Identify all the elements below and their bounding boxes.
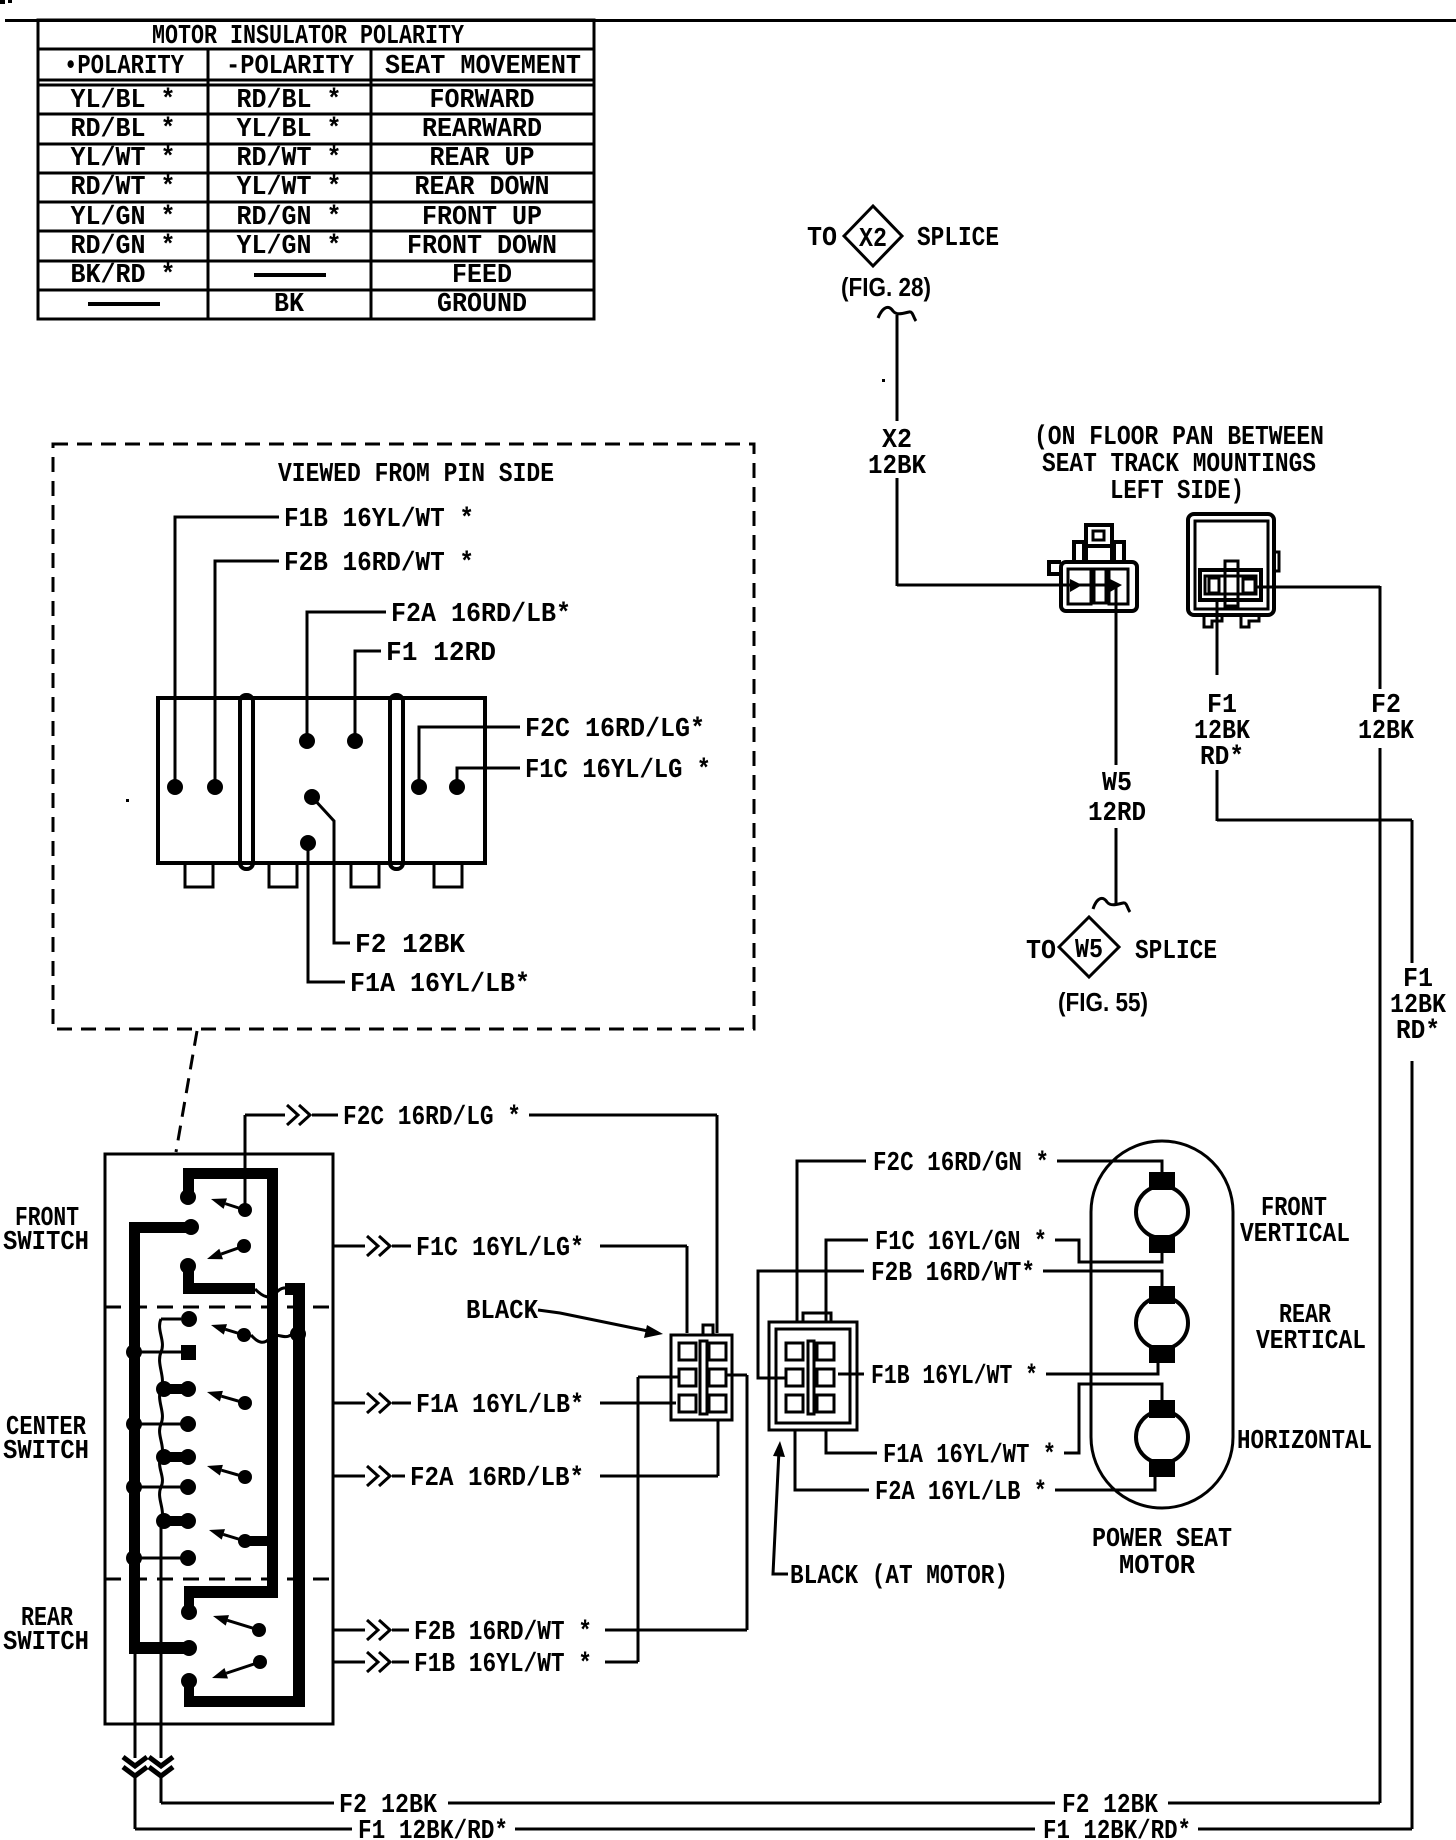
svg-text:F2 12BK: F2 12BK [355,931,466,961]
connector C3 body (pin side view) [158,695,485,887]
table row feed [71,261,513,291]
svg-text:W5: W5 [1102,769,1132,799]
center switch F1A contact bar [156,1381,196,1397]
front switch lower contact with bar [180,1258,255,1294]
svg-text:BK: BK [274,290,305,320]
svg-text:F2C 16RD/LG*: F2C 16RD/LG* [525,715,705,745]
table row forward [71,86,535,116]
svg-text:RD/BL *: RD/BL * [237,86,342,116]
svg-text:RD*: RD* [1200,743,1244,773]
svg-text:MOTOR INSULATOR POLARITY: MOTOR INSULATOR POLARITY [152,22,465,52]
rear switch wiper F1B [212,1655,267,1679]
rear switch left bar elbow [129,1640,197,1656]
squiggle link to third bus [255,1288,292,1297]
svg-text:RD/BL *: RD/BL * [71,115,176,145]
center switch row4 contact bar [156,1513,196,1529]
svg-text:BLACK (AT MOTOR): BLACK (AT MOTOR) [790,1562,1008,1592]
wire F1 12BK/RD bottom rail [135,1817,1412,1840]
svg-text:SPLICE: SPLICE [1135,937,1217,967]
label REAR SWITCH [3,1604,89,1658]
svg-text:RD*: RD* [1396,1017,1440,1047]
connector C2 (F1/F2 take-out, on floor pan) [1188,514,1380,627]
svg-text:(FIG. 55): (FIG. 55) [1058,987,1148,1017]
table row front down [71,232,558,262]
wire F2B 16RD/WT (switch to connector) [333,1375,747,1648]
svg-text:FRONT UP: FRONT UP [422,203,542,233]
table MOTOR INSULATOR POLARITY [38,20,594,319]
svg-text:HORIZONTAL: HORIZONTAL [1237,1427,1372,1457]
svg-text:SPLICE: SPLICE [917,224,999,254]
bus bar feed (right thick) [267,1168,278,1598]
pin F2A with leader [299,600,571,749]
svg-text:F1 12BK/RD*: F1 12BK/RD* [1043,1817,1191,1840]
svg-text:F2B 16RD/WT *: F2B 16RD/WT * [284,549,474,579]
splice symbol W5 [1026,917,1217,1017]
flexible bus (wavy) [160,1319,163,1758]
svg-text:F2A 16YL/LB *: F2A 16YL/LB * [875,1478,1047,1508]
page top rule [0,0,1456,22]
svg-text:RD/GN *: RD/GN * [237,203,342,233]
wire F1C 16YL/LG (switch to connector) [333,1234,687,1333]
svg-text:F2A 16RD/LB*: F2A 16RD/LB* [410,1464,584,1494]
svg-text:SWITCH: SWITCH [3,1228,89,1258]
power seat motor housing [1091,1141,1233,1508]
pin F1B with leader [167,505,474,795]
wire F2B 16RD/WT (connector to rear vertical motor) [758,1259,1162,1378]
table row rearward [71,115,543,145]
label POWER SEAT MOTOR [1092,1525,1232,1582]
svg-text:12BK: 12BK [1358,717,1415,747]
svg-text:X2: X2 [859,225,887,255]
center switch wiper F1A [207,1391,252,1410]
wire X2 12BK (splice to connector) [868,307,1061,586]
svg-text:POWER SEAT: POWER SEAT [1092,1525,1232,1555]
center switch row1 contact [161,1311,197,1327]
svg-text:VERTICAL: VERTICAL [1240,1220,1350,1250]
motor front vertical [1136,1172,1188,1253]
seat switch assembly outline [105,1154,333,1724]
svg-text:VIEWED FROM PIN SIDE: VIEWED FROM PIN SIDE [278,460,554,490]
pin F1A with leader [300,835,530,1000]
wire F2A 16YL/LB (connector to horizontal motor) [795,1430,1155,1508]
junction row y1424 [126,1416,196,1432]
svg-text:REARWARD: REARWARD [422,115,542,145]
table row ground [88,290,527,320]
svg-text:(ON FLOOR PAN BETWEEN: (ON FLOOR PAN BETWEEN [1034,423,1324,453]
center switch wiper row4 (to feed bus) [209,1529,269,1548]
svg-text:F1A 16YL/LB*: F1A 16YL/LB* [416,1391,584,1421]
wire F1B 16YL/WT (connector to rear vertical motor) [838,1362,1158,1392]
svg-text:SEAT TRACK MOUNTINGS: SEAT TRACK MOUNTINGS [1042,450,1316,480]
wire F1 12BK RD* (from connector C2) [1194,600,1447,1829]
svg-text:FORWARD: FORWARD [430,86,535,116]
label CENTER SWITCH [3,1413,89,1467]
svg-text:F1B 16YL/WT *: F1B 16YL/WT * [871,1362,1038,1392]
wire F2C 16RD/GN (connector to front vertical motor) [797,1149,1162,1322]
label BLACK with leader arrow [466,1297,663,1338]
pin F2C with leader [411,715,705,795]
rear switch bottom contact bar [181,1673,305,1707]
bus bar left thick [129,1222,140,1654]
svg-text:F1A 16YL/WT *: F1A 16YL/WT * [883,1441,1056,1471]
svg-text:YL/WT *: YL/WT * [237,173,342,203]
junction row y1487 [126,1479,196,1495]
pin F2B with leader [207,549,474,795]
pin F1 with leader [347,639,496,749]
svg-text:12RD: 12RD [1088,799,1146,829]
svg-text:LEFT SIDE): LEFT SIDE) [1110,477,1244,507]
svg-text:F2A 16RD/LB*: F2A 16RD/LB* [391,600,571,630]
front switch contact bar left [129,1219,199,1235]
junction row y1352 [126,1344,196,1360]
svg-text:YL/BL *: YL/BL * [71,86,176,116]
svg-text:F1B 16YL/WT *: F1B 16YL/WT * [414,1650,592,1680]
svg-text:(FIG. 28): (FIG. 28) [841,272,931,302]
center switch row1 wiper [211,1324,306,1342]
pin F1C with leader [449,756,711,795]
svg-text:F1B 16YL/WT *: F1B 16YL/WT * [284,505,474,535]
svg-text:YL/GN *: YL/GN * [237,232,342,262]
svg-text:GROUND: GROUND [437,290,527,320]
svg-text:YL/GN *: YL/GN * [71,203,176,233]
wire F2 12BK bottom rail [161,1791,1380,1821]
wire F1C 16YL/GN (connector to front vertical motor) [826,1228,1162,1322]
svg-text:-POLARITY: -POLARITY [226,52,355,82]
svg-text:RD/WT *: RD/WT * [237,144,342,174]
front switch wiper F2C [211,1198,252,1217]
wire F2C 16RD/LG (switch to connector) [245,1103,717,1333]
rear switch wiper F2B [213,1615,266,1637]
svg-text:12BK: 12BK [868,452,927,482]
wire F2A 16RD/LB (switch to connector) [333,1420,718,1494]
svg-text:REAR DOWN: REAR DOWN [415,173,550,203]
svg-text:FEED: FEED [452,261,512,291]
center switch F2A contact bar [156,1449,196,1465]
svg-text:SWITCH: SWITCH [3,1628,89,1658]
splice symbol X2 [807,206,999,302]
label REAR VERTICAL [1256,1301,1366,1357]
connector C1 (X2/W5 inline, on floor pan) [1049,525,1137,611]
dashed detail box VIEWED FROM PIN SIDE [53,444,754,1152]
table row rear up [71,144,535,174]
label FRONT VERTICAL [1240,1194,1350,1250]
wire F2 12BK (right vertical) [1358,586,1415,1803]
svg-text:F1C 16YL/LG *: F1C 16YL/LG * [525,756,711,786]
wire F1A 16YL/LB (switch to connector) [333,1391,676,1421]
front switch top contact bar [180,1168,277,1205]
front switch wiper F1C [207,1239,251,1259]
svg-text:SEAT MOVEMENT: SEAT MOVEMENT [385,52,581,82]
wire F1B 16YL/WT (switch to connector) [333,1377,679,1680]
svg-text:YL/WT *: YL/WT * [71,144,176,174]
wire F1A 16YL/WT (connector to horizontal motor) [826,1384,1162,1471]
svg-text:F1A 16YL/LB*: F1A 16YL/LB* [350,970,530,1000]
bus bar third thick [285,1283,305,1707]
label BLACK (AT MOTOR) with leader arrow [773,1441,1008,1592]
wire F2 exit from switch [149,1757,173,1803]
rear switch feed elbow [181,1586,277,1620]
svg-text:F1C 16YL/GN *: F1C 16YL/GN * [875,1228,1047,1258]
table row rear down [71,173,550,203]
svg-text:SWITCH: SWITCH [3,1437,89,1467]
svg-text:F1 12RD: F1 12RD [386,639,496,669]
wire W5 12RD (connector to splice W5) [1088,586,1146,912]
motor rear vertical [1136,1286,1188,1363]
svg-text:F1C 16YL/LG*: F1C 16YL/LG* [416,1234,584,1264]
table row front up [71,203,543,233]
pin F2 with leader [304,789,466,961]
svg-text:TO: TO [1026,937,1056,967]
center switch wiper F2A [207,1465,252,1484]
connector C4 (switch side, BLACK) [671,1325,732,1420]
svg-text:MOTOR: MOTOR [1119,1552,1196,1582]
svg-text:BK/RD *: BK/RD * [71,261,176,291]
junction row y1558 [126,1550,196,1566]
svg-text:VERTICAL: VERTICAL [1256,1327,1366,1357]
svg-text:W5: W5 [1075,936,1103,966]
svg-text:F2C 16RD/GN *: F2C 16RD/GN * [873,1149,1049,1179]
svg-text:F1 12BK/RD*: F1 12BK/RD* [358,1817,508,1840]
svg-text:REAR UP: REAR UP [430,144,535,174]
svg-text:TO: TO [807,224,837,254]
svg-text:F2B 16RD/WT*: F2B 16RD/WT* [871,1259,1035,1289]
wire F1 exit from switch [123,1654,147,1829]
svg-text:RD/GN *: RD/GN * [71,232,176,262]
svg-text:YL/BL *: YL/BL * [237,115,342,145]
note: connector location [1034,423,1324,507]
svg-text:FRONT DOWN: FRONT DOWN [407,232,557,262]
motor horizontal [1136,1400,1188,1477]
label FRONT SWITCH [3,1204,89,1258]
svg-text:F2B 16RD/WT *: F2B 16RD/WT * [414,1618,592,1648]
svg-text:F2C 16RD/LG *: F2C 16RD/LG * [343,1103,521,1133]
svg-text:RD/WT *: RD/WT * [71,173,176,203]
svg-text:BLACK: BLACK [466,1297,539,1327]
svg-text:•POLARITY: •POLARITY [64,52,185,82]
connector C5 (motor side, BLACK AT MOTOR) [769,1313,857,1430]
